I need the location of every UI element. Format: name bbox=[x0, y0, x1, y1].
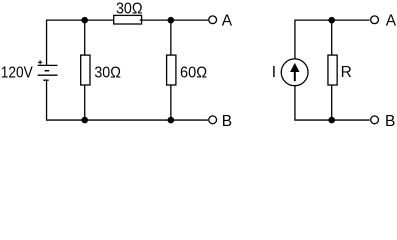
current source I: circle bbox=[281, 59, 308, 86]
wire: branch 1 upper segment bbox=[84, 20, 86, 56]
battery V1: long plate 1 bbox=[38, 64, 58, 66]
svg-text:60Ω: 60Ω bbox=[180, 64, 207, 81]
battery V1: short plate 1 bbox=[45, 70, 50, 72]
svg-text:A: A bbox=[386, 13, 397, 30]
battery V1: long plate 2 bbox=[38, 74, 58, 76]
wire: left circuit bottom rail bbox=[47, 80, 208, 120]
node: junction dot bottom branch 1 bbox=[81, 117, 88, 124]
terminal A (right circuit): open circle bbox=[371, 16, 379, 24]
wire: R branch lower segment bbox=[331, 85, 333, 120]
node: junction dot right circuit top bbox=[328, 17, 335, 24]
wire: right circuit bottom rail bbox=[295, 86, 370, 120]
svg-text:R: R bbox=[341, 64, 352, 81]
resistor R: body bbox=[328, 55, 337, 85]
node: junction dot bottom branch 2 bbox=[168, 117, 175, 124]
wire: R branch upper segment bbox=[331, 20, 333, 56]
wire: right circuit top rail bbox=[295, 20, 370, 59]
terminal B (right circuit): open circle bbox=[371, 116, 379, 124]
wire: left circuit top rail bbox=[47, 20, 114, 65]
wire: branch 2 lower segment bbox=[170, 85, 172, 120]
node: junction dot right circuit bottom bbox=[328, 117, 335, 124]
svg-text:I: I bbox=[272, 64, 276, 81]
terminal A (left circuit): open circle bbox=[209, 16, 217, 24]
resistor R1 30Ω (series, top): body bbox=[114, 15, 142, 24]
battery V1: short plate 2 bbox=[43, 79, 48, 81]
wire: top rail right of series resistor to terminal A bbox=[140, 19, 209, 21]
battery V1 120V: plus sign bbox=[38, 60, 42, 64]
node: junction dot top branch 1 bbox=[81, 17, 88, 24]
svg-text:120V: 120V bbox=[1, 64, 34, 81]
svg-text:30Ω: 30Ω bbox=[94, 64, 121, 81]
terminal B (left circuit): open circle bbox=[209, 116, 217, 124]
resistor R3 60Ω (shunt): body bbox=[167, 55, 176, 85]
svg-text:30Ω: 30Ω bbox=[116, 0, 143, 17]
svg-text:A: A bbox=[222, 13, 233, 30]
node: junction dot top branch 2 bbox=[168, 17, 175, 24]
svg-text:B: B bbox=[385, 113, 395, 130]
wire: branch 1 lower segment bbox=[84, 85, 86, 120]
wire: branch 2 upper segment bbox=[170, 20, 172, 56]
svg-text:B: B bbox=[222, 113, 232, 130]
resistor R2 30Ω (shunt): body bbox=[81, 55, 90, 85]
current source I: arrow bbox=[290, 63, 299, 81]
